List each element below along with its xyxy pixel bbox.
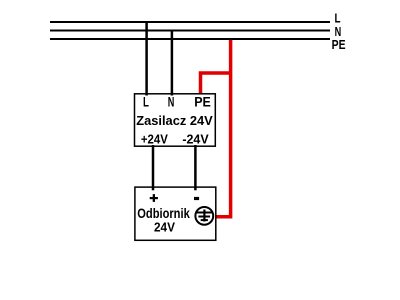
wire: N neutral bus bbox=[50, 30, 330, 32]
wire: +24V output to load bbox=[152, 145, 155, 190]
svg-text:L: L bbox=[143, 95, 149, 110]
ground: earth symbol middle bar bbox=[198, 216, 210, 218]
wire: L drop to power supply bbox=[145, 22, 148, 96]
pin label - (load, drawn minus sign) bbox=[194, 197, 199, 200]
svg-text:PE: PE bbox=[332, 38, 346, 52]
svg-text:24V: 24V bbox=[154, 221, 176, 235]
wire: L phase bus bbox=[50, 21, 330, 23]
wire: N drop to power supply bbox=[171, 31, 174, 96]
ground: PE earth symbol circle bbox=[195, 207, 213, 225]
ground: earth symbol stem bbox=[203, 210, 205, 222]
svg-text:Odbiornik: Odbiornik bbox=[137, 206, 190, 221]
svg-text:N: N bbox=[168, 95, 175, 110]
wire: PE bus bbox=[50, 38, 330, 40]
svg-text:-24V: -24V bbox=[182, 132, 209, 146]
wire: PE red branch to power supply PE pin bbox=[201, 73, 231, 96]
pin label + (load, drawn plus sign) bbox=[150, 194, 158, 202]
svg-text:N: N bbox=[335, 25, 342, 39]
svg-text:PE: PE bbox=[194, 95, 211, 110]
ground: earth symbol top bar bbox=[197, 212, 212, 214]
svg-text:Zasilacz 24V: Zasilacz 24V bbox=[136, 113, 213, 128]
load: Odbiornik 24V box bbox=[135, 187, 216, 240]
wire: -24V output to load bbox=[194, 145, 197, 190]
svg-text:L: L bbox=[335, 11, 341, 25]
ground: earth symbol bottom bar bbox=[201, 219, 208, 221]
svg-text:+24V: +24V bbox=[141, 132, 169, 146]
wire: PE red main drop from bus to ground symbol bbox=[216, 40, 231, 217]
power supply: Zasilacz 24V box bbox=[135, 94, 216, 146]
